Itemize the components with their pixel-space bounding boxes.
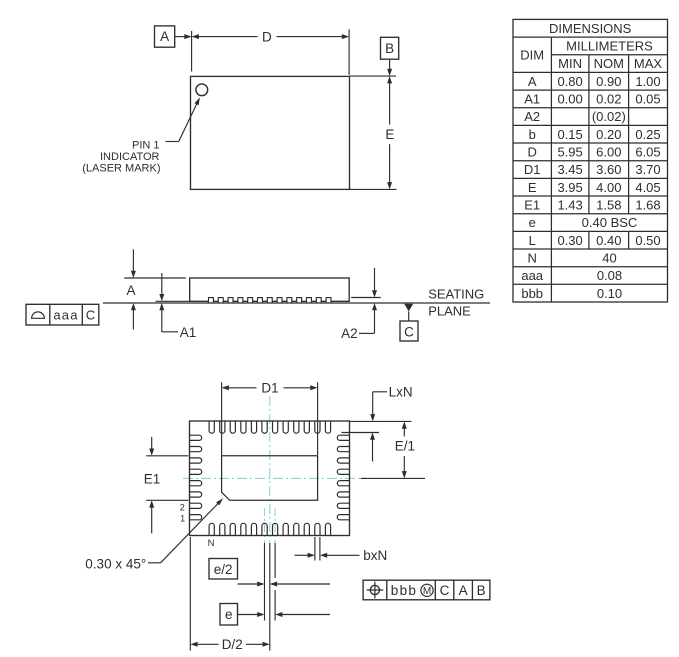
svg-text:0.02: 0.02 <box>596 92 621 107</box>
svg-text:(LASER MARK): (LASER MARK) <box>82 162 160 174</box>
table row N <box>528 250 617 265</box>
dimension E: dimension line with arrows and label <box>385 76 394 189</box>
bottom view: right lead column (8 pads) <box>337 435 349 520</box>
feature control frame: profile-of-surface aaa C <box>26 304 99 325</box>
svg-text:PIN 1: PIN 1 <box>132 139 160 151</box>
datum B label box with down arrow <box>381 37 399 76</box>
table row E <box>528 180 661 195</box>
dimension D: extension lines <box>192 29 350 74</box>
side view: seating plane line <box>103 302 490 304</box>
svg-text:A: A <box>528 74 537 89</box>
svg-text:N: N <box>528 250 537 265</box>
svg-text:A1: A1 <box>180 325 197 340</box>
svg-text:0.05: 0.05 <box>635 92 660 107</box>
svg-text:aaa: aaa <box>521 268 543 283</box>
svg-text:4.00: 4.00 <box>596 180 621 195</box>
svg-text:6.00: 6.00 <box>596 145 621 160</box>
svg-text:bxN: bxN <box>363 548 387 563</box>
svg-text:e/2: e/2 <box>214 562 233 577</box>
svg-text:0.80: 0.80 <box>557 74 582 89</box>
svg-text:0.20: 0.20 <box>596 127 621 142</box>
svg-text:B: B <box>385 41 394 56</box>
svg-text:0.40 BSC: 0.40 BSC <box>582 215 638 230</box>
bottom view: exposed thermal pad with chamfered corner <box>222 456 318 501</box>
dimension bxN: extension lines <box>315 537 320 561</box>
svg-text:3.60: 3.60 <box>596 162 621 177</box>
dimension D1: extension lines <box>222 382 318 455</box>
table row e <box>529 215 638 230</box>
SEATING PLANE label <box>428 287 484 319</box>
bottom view: pad 6 centerline segment (cyan) <box>264 508 266 543</box>
top view: package body outline <box>191 76 350 189</box>
dimension e: boxed label with arrows <box>220 604 330 626</box>
dimension A: top extension line <box>124 277 185 279</box>
dimension D/2: left extension line <box>189 537 191 651</box>
svg-text:D1: D1 <box>524 162 541 177</box>
svg-text:1.58: 1.58 <box>596 198 621 213</box>
table header: MIN NOM MAX <box>558 56 662 71</box>
svg-text:0.50: 0.50 <box>635 233 660 248</box>
svg-text:0.40: 0.40 <box>596 233 621 248</box>
svg-text:D/2: D/2 <box>222 637 243 652</box>
table row L <box>529 233 661 248</box>
extension line: package centerline below package <box>269 543 271 651</box>
dimension D: dimension line with arrows and label <box>192 29 350 44</box>
extension line: pad 6 center below package <box>264 543 266 621</box>
table row bbb <box>521 286 622 301</box>
side view: package body outline <box>190 278 350 301</box>
svg-text:0.90: 0.90 <box>596 74 621 89</box>
bottom view: bottom lead row (12 pads, pin 1..N side) <box>209 523 331 535</box>
dimension e/2: boxed label with arrows <box>209 559 330 587</box>
svg-text:e: e <box>225 607 233 622</box>
dimension E: extension lines <box>350 76 397 189</box>
table row A <box>528 74 661 89</box>
bottom view: vertical centerline (cyan) <box>269 396 271 543</box>
svg-text:D: D <box>262 29 272 44</box>
dimension E1: arrows and label <box>144 437 161 534</box>
svg-text:6.05: 6.05 <box>635 145 660 160</box>
extension line: pad 7 center below package (broken at e/2 arrow) <box>274 543 276 621</box>
svg-text:C: C <box>404 325 414 340</box>
svg-text:LxN: LxN <box>389 384 413 399</box>
pin N number label <box>208 538 215 549</box>
svg-text:bbb: bbb <box>391 583 417 598</box>
table row A1 <box>524 92 660 107</box>
svg-text:0.08: 0.08 <box>597 268 622 283</box>
svg-text:NOM: NOM <box>594 56 624 71</box>
dimension A2: lead top extension line <box>351 297 381 299</box>
svg-text:e: e <box>529 215 536 230</box>
dimension D/2: dimension line with arrows and label <box>190 637 269 652</box>
svg-text:0.15: 0.15 <box>557 127 582 142</box>
svg-text:C: C <box>86 308 95 323</box>
svg-text:3.45: 3.45 <box>557 162 582 177</box>
dimension A1: arrows and label <box>159 273 196 340</box>
svg-text:D1: D1 <box>261 381 278 396</box>
svg-text:E: E <box>385 127 394 142</box>
svg-text:0.30: 0.30 <box>557 233 582 248</box>
table header: DIM / MILLIMETERS <box>520 39 653 63</box>
svg-text:PLANE: PLANE <box>428 303 471 318</box>
side view: lead row (13 lead ends) <box>209 298 332 303</box>
svg-text:A: A <box>459 583 468 598</box>
svg-text:2: 2 <box>180 502 185 512</box>
svg-text:4.05: 4.05 <box>635 180 660 195</box>
svg-text:1.68: 1.68 <box>635 198 660 213</box>
svg-text:C: C <box>440 583 450 598</box>
svg-text:aaa: aaa <box>53 308 78 323</box>
svg-text:MAX: MAX <box>634 56 663 71</box>
table row D <box>528 145 661 160</box>
dimension A1: package bottom extension line <box>156 300 191 302</box>
svg-text:E/1: E/1 <box>395 439 415 454</box>
chamfer callout 0.30 x 45 with leader arrow <box>85 497 224 572</box>
pin 2 number label <box>180 502 185 512</box>
svg-text:0.00: 0.00 <box>557 92 582 107</box>
dimensions table: grid <box>513 19 668 302</box>
svg-text:A2: A2 <box>341 326 358 341</box>
svg-text:B: B <box>477 583 486 598</box>
svg-text:0.10: 0.10 <box>597 286 622 301</box>
dimension D1: dimension line with arrows and label <box>222 381 318 396</box>
bottom view: package outline <box>190 421 350 536</box>
svg-text:INDICATOR: INDICATOR <box>100 151 160 163</box>
svg-text:E1: E1 <box>144 471 161 486</box>
table row A2 <box>524 109 626 124</box>
svg-text:(0.02): (0.02) <box>592 109 626 124</box>
svg-text:SEATING: SEATING <box>428 287 484 302</box>
svg-text:3.70: 3.70 <box>635 162 660 177</box>
table header: DIMENSIONS <box>549 21 632 36</box>
svg-text:A2: A2 <box>524 109 540 124</box>
top view: pin 1 indicator circle (laser mark) <box>196 84 208 96</box>
top view: pin 1 indicator leader with arrowhead <box>166 96 202 141</box>
svg-text:E: E <box>528 180 537 195</box>
dimension LxN: arrows, leader and label <box>370 384 413 461</box>
table row aaa <box>521 268 622 283</box>
top view: PIN 1 INDICATOR (LASER MARK) label <box>82 139 160 174</box>
svg-text:A: A <box>160 29 169 44</box>
bottom view: left lead column (8 pads) <box>190 435 202 520</box>
dimension E/1: dimension line with arrows and label <box>361 421 425 478</box>
svg-text:A1: A1 <box>524 92 540 107</box>
table row b <box>529 127 661 142</box>
svg-text:40: 40 <box>602 250 616 265</box>
svg-text:0.30 x 45°: 0.30 x 45° <box>85 556 146 571</box>
dimension A: arrows and label <box>126 249 135 329</box>
svg-text:L: L <box>529 233 536 248</box>
bottom view: top lead row (12 pads) <box>209 421 331 433</box>
svg-text:3.95: 3.95 <box>557 180 582 195</box>
svg-text:D: D <box>528 145 537 160</box>
svg-text:0.25: 0.25 <box>635 127 660 142</box>
table row E1 <box>524 198 660 213</box>
dimension LxN: extension lines <box>342 421 412 432</box>
bottom view: pad 7 centerline segment (cyan) <box>274 508 276 543</box>
dimension bxN: arrows and label <box>295 548 388 563</box>
svg-text:MIN: MIN <box>558 56 582 71</box>
svg-text:5.95: 5.95 <box>557 145 582 160</box>
dimension A2: arrows and label <box>341 268 377 341</box>
svg-text:DIM: DIM <box>520 47 544 62</box>
svg-text:bbb: bbb <box>521 286 543 301</box>
dimension E1: extension lines <box>146 456 188 501</box>
svg-text:DIMENSIONS: DIMENSIONS <box>549 21 632 36</box>
svg-text:1.00: 1.00 <box>635 74 660 89</box>
datum A label box with leader arrow <box>155 26 192 47</box>
svg-text:1: 1 <box>180 514 185 524</box>
bottom view: horizontal centerline (cyan) <box>183 477 366 479</box>
svg-text:A: A <box>126 283 135 298</box>
svg-text:b: b <box>529 127 536 142</box>
svg-text:E1: E1 <box>524 198 540 213</box>
feature control frame: position bbb(M) C A B <box>363 580 490 600</box>
svg-text:M: M <box>423 586 431 597</box>
svg-text:1.43: 1.43 <box>557 198 582 213</box>
datum C: filled triangle flag and label box <box>400 304 418 341</box>
table row D1 <box>524 162 661 177</box>
svg-text:MILLIMETERS: MILLIMETERS <box>566 39 653 54</box>
svg-text:N: N <box>208 538 215 549</box>
pin 1 number label <box>180 514 185 524</box>
